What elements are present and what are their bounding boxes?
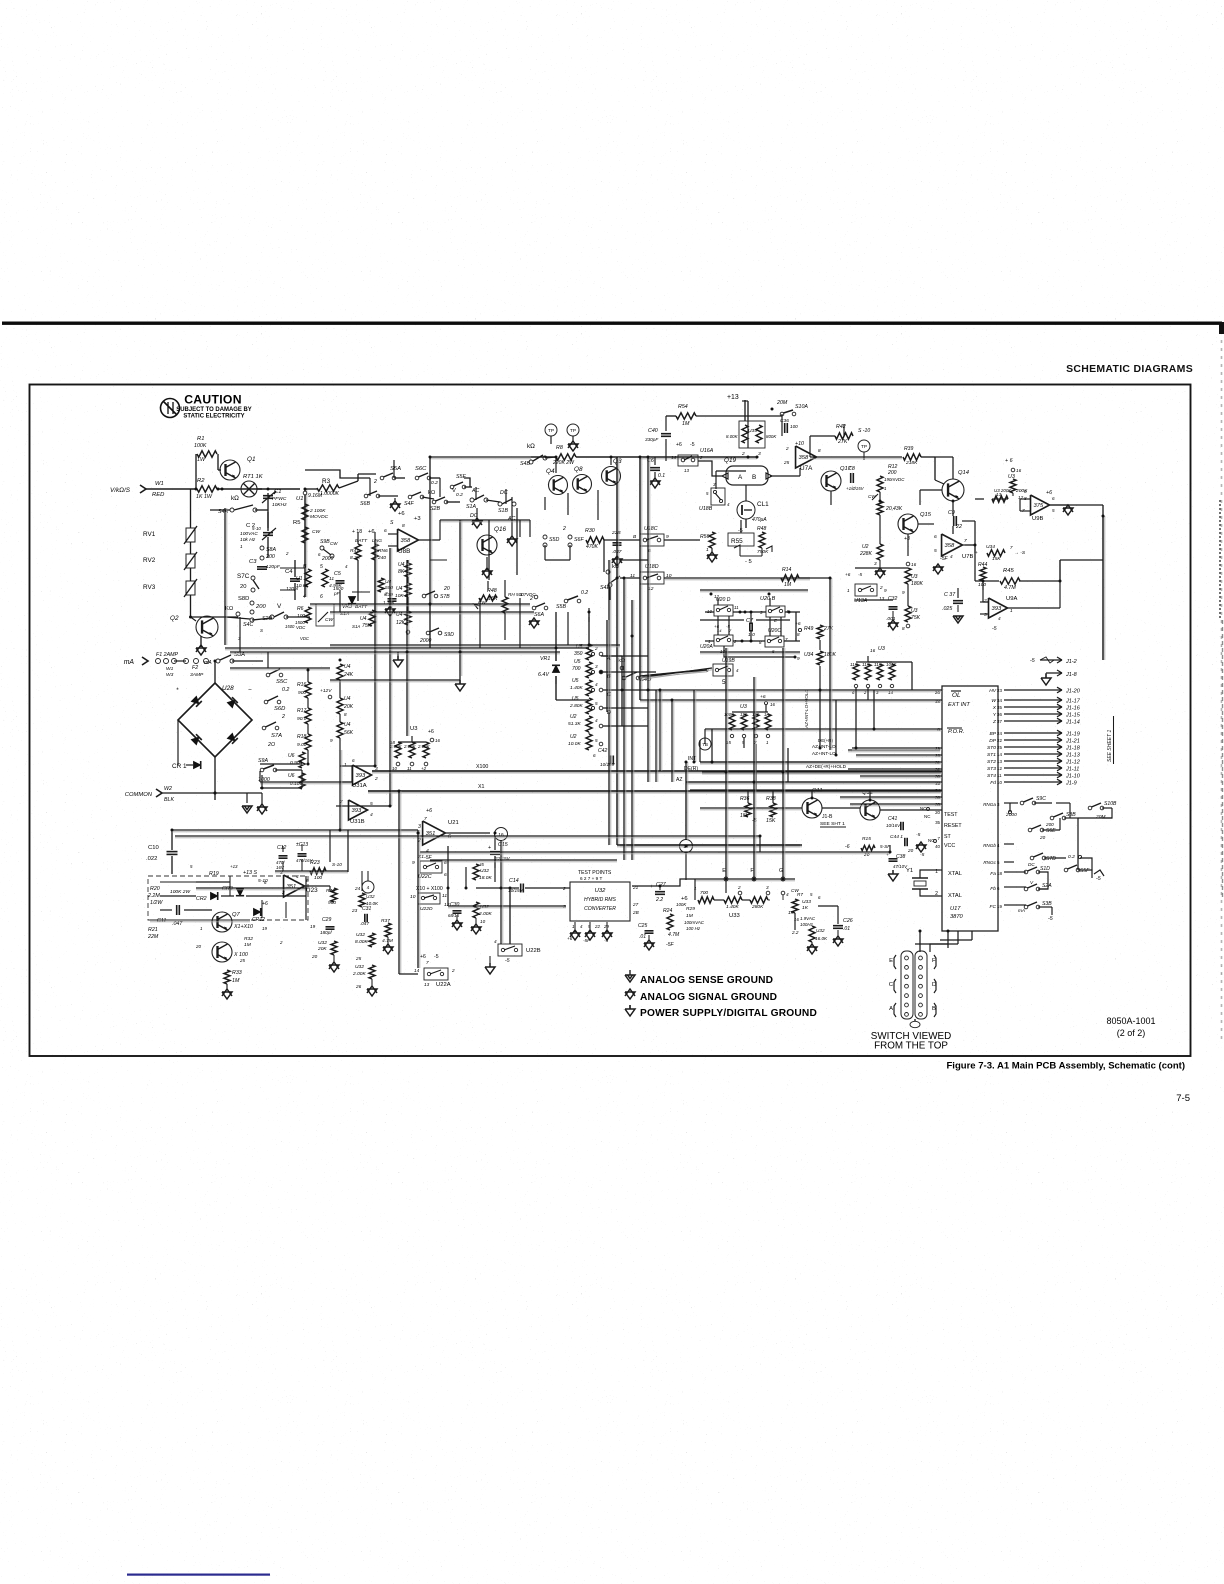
svg-text:U16A: U16A bbox=[700, 448, 714, 454]
resistor R17 90.0 bbox=[305, 708, 311, 724]
svg-text:S10A: S10A bbox=[795, 404, 808, 410]
wire R55 R48 to -5 bbox=[739, 546, 741, 556]
svg-text:1: 1 bbox=[200, 926, 203, 931]
grounds below bridge bbox=[246, 793, 248, 803]
switch S6E 200 bbox=[1028, 828, 1032, 832]
schematic frame bbox=[30, 385, 1191, 1057]
svg-text:Q19: Q19 bbox=[724, 457, 736, 464]
svg-text:Figure 7-3. A1 Main PCB Assemb: Figure 7-3. A1 Main PCB Assembly, Schema… bbox=[946, 1061, 1185, 1072]
bridge rectifier U28 bbox=[178, 683, 252, 757]
svg-text:J1-8: J1-8 bbox=[1065, 672, 1078, 678]
wire S4B line y457 bbox=[430, 456, 531, 458]
svg-text:X1: X1 bbox=[478, 784, 485, 790]
svg-text:27K: 27K bbox=[837, 439, 848, 445]
wire u5 top x589 bbox=[588, 608, 590, 612]
svg-text:1.0000K: 1.0000K bbox=[320, 491, 340, 497]
svg-text:J1-10: J1-10 bbox=[1065, 774, 1081, 780]
legend power ground symbol bbox=[625, 1009, 635, 1016]
wire vertical main loop x617 bbox=[616, 457, 618, 845]
svg-text:U32: U32 bbox=[355, 964, 364, 970]
switch S9D 2000 bbox=[426, 631, 430, 635]
wire IC bottom drops bbox=[919, 931, 921, 952]
svg-text:R14: R14 bbox=[782, 567, 791, 573]
svg-text:0.1: 0.1 bbox=[658, 473, 665, 479]
svg-text:228K: 228K bbox=[859, 551, 872, 557]
switch S1D DC bbox=[1024, 870, 1028, 874]
svg-text:10.0K: 10.0K bbox=[568, 741, 581, 747]
svg-text:-5: -5 bbox=[858, 572, 863, 577]
resistor U4 590 bbox=[378, 578, 384, 592]
svg-text:U4: U4 bbox=[360, 616, 367, 622]
svg-text:X: X bbox=[992, 705, 997, 711]
svg-text:Q8: Q8 bbox=[574, 466, 583, 473]
svg-text:RNGa: RNGa bbox=[983, 802, 996, 807]
svg-text:C31: C31 bbox=[362, 906, 371, 912]
svg-text:BLK: BLK bbox=[164, 797, 174, 803]
svg-text:J1-13: J1-13 bbox=[1065, 753, 1081, 759]
svg-text:S5D: S5D bbox=[549, 537, 559, 543]
wire U21 col x448 bbox=[447, 846, 449, 906]
svg-text:E: E bbox=[889, 958, 893, 964]
svg-text:U2: U2 bbox=[862, 544, 869, 550]
capacitor C1 (variable) bbox=[263, 495, 273, 497]
svg-text:9: 9 bbox=[412, 860, 415, 866]
svg-text:DC: DC bbox=[500, 490, 508, 496]
wire bundle vertical x624 bbox=[623, 578, 625, 860]
wire IC bus drop x694 bbox=[693, 690, 695, 762]
svg-text:+6: +6 bbox=[262, 901, 268, 907]
svg-text:W1: W1 bbox=[155, 481, 164, 487]
svg-text:0.2: 0.2 bbox=[456, 492, 463, 498]
svg-text:+: + bbox=[488, 845, 491, 851]
ground Q2 bbox=[200, 636, 202, 647]
svg-text:2: 2 bbox=[562, 886, 566, 891]
svg-text:4: 4 bbox=[580, 924, 583, 929]
wire R44 bottom bbox=[982, 581, 984, 602]
svg-text:18: 18 bbox=[390, 740, 395, 745]
svg-text:U3: U3 bbox=[878, 646, 885, 652]
svg-text:R49: R49 bbox=[804, 626, 813, 632]
svg-text:U32: U32 bbox=[356, 932, 365, 938]
resistor R16 900 bbox=[305, 682, 311, 698]
svg-text:3: 3 bbox=[876, 690, 879, 695]
svg-text:7: 7 bbox=[938, 836, 941, 841]
capacitor C9 22 bbox=[953, 516, 955, 526]
svg-text:U4: U4 bbox=[396, 612, 403, 618]
wire IC bus drop x712 bbox=[711, 729, 713, 762]
svg-text:51.3K: 51.3K bbox=[568, 721, 581, 727]
svg-text:-5F: -5F bbox=[940, 556, 949, 562]
wire rails y645 bbox=[330, 644, 620, 646]
long loop bottom bbox=[965, 544, 975, 546]
svg-text:P.O.R.: P.O.R. bbox=[948, 729, 964, 735]
svg-text:6: 6 bbox=[444, 872, 447, 878]
svg-text:W: W bbox=[991, 698, 996, 704]
resistor U33 280K bbox=[766, 891, 770, 895]
svg-text:-5F: -5F bbox=[666, 942, 675, 948]
svg-text:26: 26 bbox=[355, 984, 362, 989]
svg-text:1M: 1M bbox=[232, 978, 240, 984]
svg-text:C27: C27 bbox=[656, 882, 667, 888]
svg-text:+6: +6 bbox=[428, 729, 434, 735]
svg-text:U3: U3 bbox=[911, 574, 918, 580]
svg-text:mA: mA bbox=[204, 660, 212, 666]
transistor Q1 bbox=[220, 460, 240, 480]
wire circled4 links bbox=[367, 871, 369, 881]
wire rail y860 bbox=[430, 859, 617, 861]
wire Q11 row bbox=[620, 844, 800, 846]
svg-text:VDC: VDC bbox=[300, 636, 310, 641]
svg-text:1.40K: 1.40K bbox=[726, 904, 739, 910]
svg-text:22: 22 bbox=[594, 924, 600, 929]
svg-text:V: V bbox=[1030, 880, 1034, 885]
transistor Q16 bbox=[477, 535, 497, 555]
svg-text:AZ+DE(+R)+HOLD: AZ+DE(+R)+HOLD bbox=[806, 764, 847, 769]
svg-text:CR3: CR3 bbox=[222, 886, 233, 892]
svg-text:10: 10 bbox=[392, 766, 397, 771]
svg-text:24K: 24K bbox=[343, 672, 354, 678]
svg-text:U9A: U9A bbox=[1006, 596, 1017, 602]
svg-text:U9B: U9B bbox=[1032, 516, 1043, 522]
svg-text:5: 5 bbox=[934, 548, 937, 554]
svg-text:+10: +10 bbox=[795, 441, 804, 447]
svg-text:C25: C25 bbox=[638, 923, 647, 929]
svg-text:27: 27 bbox=[632, 902, 639, 907]
svg-text:20: 20 bbox=[907, 848, 914, 853]
wire S4D to U19B bbox=[640, 670, 707, 676]
svg-text:SUBJECT TO DAMAGE BY: SUBJECT TO DAMAGE BY bbox=[176, 407, 251, 413]
svg-text:13: 13 bbox=[684, 468, 689, 473]
svg-text:S6F: S6F bbox=[574, 537, 584, 543]
wire x656 col bbox=[655, 690, 657, 782]
svg-text:8: 8 bbox=[818, 448, 821, 453]
legend analog sense ground symbol bbox=[625, 975, 635, 982]
wire vertical x501 circled16 down bbox=[500, 840, 502, 944]
svg-text:Q1: Q1 bbox=[247, 456, 255, 463]
svg-text:1M: 1M bbox=[682, 421, 690, 427]
svg-text:4: 4 bbox=[998, 616, 1001, 621]
wire U20 row links bbox=[795, 612, 797, 641]
ground S6B bbox=[390, 501, 400, 508]
svg-text:-5: -5 bbox=[916, 832, 921, 838]
wire sub box bottom y648 bbox=[225, 647, 556, 649]
wires transistor trio bbox=[555, 457, 557, 473]
svg-text:C38: C38 bbox=[896, 854, 905, 860]
switch S5D bbox=[543, 535, 547, 539]
svg-text:4: 4 bbox=[370, 812, 373, 818]
U32 bottom grounds bbox=[574, 922, 576, 932]
svg-text:KΩ: KΩ bbox=[225, 606, 234, 612]
svg-text:R20: R20 bbox=[150, 886, 160, 892]
svg-text:C40: C40 bbox=[648, 428, 658, 434]
svg-text:C14: C14 bbox=[509, 878, 519, 884]
transistor Q14 bbox=[942, 479, 964, 501]
resistor R1 100K 1W bbox=[195, 454, 197, 489]
svg-text:AZ+INT-LO+HOLD: AZ+INT-LO+HOLD bbox=[804, 689, 809, 729]
svg-text:+3: +3 bbox=[414, 516, 421, 522]
switch U18D bbox=[640, 572, 664, 584]
switch U19B bbox=[713, 664, 733, 676]
switch S7D bbox=[1030, 856, 1034, 860]
svg-text:2: 2 bbox=[737, 885, 741, 890]
svg-text:4: 4 bbox=[595, 682, 598, 687]
svg-text:HV: HV bbox=[989, 688, 997, 694]
svg-text:10: 10 bbox=[480, 919, 486, 924]
wire vertical x399 X1 to U22A bbox=[398, 791, 400, 974]
wire R49 col verticals bbox=[819, 640, 821, 650]
wires U33 rail to resistors bbox=[694, 879, 696, 900]
switch S8B bbox=[1050, 816, 1054, 820]
svg-text:U7B: U7B bbox=[962, 554, 973, 560]
svg-text:1K: 1K bbox=[788, 910, 795, 915]
wire x330 drop bbox=[329, 830, 331, 862]
svg-text:+2: +2 bbox=[421, 766, 427, 771]
svg-text:6: 6 bbox=[448, 834, 451, 840]
svg-text:100K 2W: 100K 2W bbox=[170, 889, 190, 895]
svg-text:C32: C32 bbox=[888, 596, 897, 602]
svg-text:200: 200 bbox=[887, 470, 897, 476]
svg-text:+13: +13 bbox=[230, 864, 238, 869]
svg-text:NC: NC bbox=[924, 814, 931, 819]
svg-text:20M: 20M bbox=[776, 400, 788, 406]
svg-text:+ 6: + 6 bbox=[1005, 458, 1013, 464]
svg-text:5: 5 bbox=[810, 892, 813, 897]
svg-text:358: 358 bbox=[799, 455, 809, 461]
svg-text:10KHz: 10KHz bbox=[272, 502, 287, 508]
svg-text:375: 375 bbox=[1034, 503, 1044, 509]
svg-text:S2A: S2A bbox=[1042, 883, 1052, 889]
svg-text:R24: R24 bbox=[663, 908, 672, 914]
potentiometer CW arrow bbox=[318, 612, 328, 622]
wire bundle vertical x648 bbox=[647, 457, 649, 700]
bus X100 bbox=[372, 770, 940, 772]
svg-text:16: 16 bbox=[1016, 468, 1022, 473]
op amp U8B feed wires bbox=[388, 533, 397, 535]
bottom connector switch columns bbox=[901, 951, 913, 1019]
svg-text:6: 6 bbox=[934, 534, 937, 540]
svg-text:19: 19 bbox=[310, 924, 316, 929]
wire U23 out bbox=[305, 885, 330, 887]
svg-text:20: 20 bbox=[195, 944, 201, 949]
wire y656 taps to S4D bbox=[622, 667, 624, 669]
resistor R6 100 bbox=[305, 607, 311, 623]
svg-text:CW: CW bbox=[330, 541, 338, 546]
svg-text:11: 11 bbox=[442, 893, 447, 899]
svg-text:S1D: S1D bbox=[1040, 866, 1050, 872]
svg-text:180pf: 180pf bbox=[320, 930, 332, 935]
wire IC bus drop x672 bbox=[671, 700, 673, 782]
ground under C29 bbox=[329, 962, 339, 969]
svg-text:20: 20 bbox=[935, 810, 940, 815]
svg-text:U20A: U20A bbox=[700, 644, 713, 650]
svg-text:16V: 16V bbox=[276, 865, 285, 870]
svg-text:6: 6 bbox=[852, 690, 855, 695]
wire U31A minus input bbox=[260, 781, 352, 783]
svg-text:8: 8 bbox=[344, 712, 347, 717]
svg-text:12: 12 bbox=[648, 586, 654, 592]
svg-text:J1-16: J1-16 bbox=[1065, 706, 1081, 712]
svg-text:4: 4 bbox=[296, 874, 299, 879]
svg-text:R44: R44 bbox=[978, 562, 987, 568]
wire x240 S4C link bbox=[239, 617, 241, 652]
svg-text:U32: U32 bbox=[595, 888, 606, 894]
svg-text:2: 2 bbox=[699, 455, 703, 460]
svg-text:C44 1: C44 1 bbox=[890, 834, 903, 840]
svg-text:3: 3 bbox=[595, 664, 598, 669]
svg-text:C11: C11 bbox=[157, 918, 166, 924]
svg-text:kΩ: kΩ bbox=[527, 443, 535, 450]
wire y520 Q16 row bbox=[440, 519, 530, 521]
svg-text:C5: C5 bbox=[334, 571, 341, 577]
transistor Q7 bbox=[212, 912, 232, 932]
svg-text:2B: 2B bbox=[632, 910, 639, 915]
op amp U31A bbox=[353, 765, 372, 785]
svg-text:R40: R40 bbox=[326, 888, 335, 894]
svg-text:393: 393 bbox=[352, 808, 362, 814]
svg-text:20: 20 bbox=[863, 852, 870, 858]
svg-text:U5: U5 bbox=[574, 659, 581, 665]
svg-text:-5: -5 bbox=[1030, 658, 1035, 664]
wire R55 col x741 bbox=[740, 520, 742, 533]
ground under R33 bbox=[226, 984, 228, 990]
svg-text:−: − bbox=[248, 687, 252, 694]
svg-text:DP: DP bbox=[989, 738, 997, 744]
wire Q19 out to Q17 bbox=[770, 475, 800, 477]
wire x700 drop bbox=[699, 740, 701, 762]
IC U17 3870 bbox=[942, 686, 998, 931]
wire vertical x783 to G bbox=[782, 648, 784, 877]
svg-text:16.0K: 16.0K bbox=[815, 936, 828, 941]
svg-text:U32: U32 bbox=[366, 894, 375, 899]
svg-text:U32: U32 bbox=[480, 904, 489, 910]
svg-text:3: 3 bbox=[418, 824, 421, 830]
svg-text:7: 7 bbox=[1010, 545, 1013, 550]
switch S6A bbox=[532, 606, 536, 610]
switch S5E bbox=[450, 485, 454, 489]
wire x648 extend bbox=[647, 700, 649, 782]
svg-text:100VAC: 100VAC bbox=[240, 531, 258, 537]
svg-text:10/16V: 10/16V bbox=[886, 823, 901, 828]
svg-text:5: 5 bbox=[1052, 508, 1055, 513]
svg-text:STATIC ELECTRICITY: STATIC ELECTRICITY bbox=[183, 414, 244, 420]
wire x480 pot drop bbox=[479, 598, 481, 648]
svg-text:4: 4 bbox=[426, 848, 429, 854]
svg-text:1K: 1K bbox=[802, 905, 809, 911]
svg-text:S7A: S7A bbox=[271, 733, 282, 739]
wire vertical x390 to U31B bbox=[389, 548, 391, 806]
svg-text:RN6: RN6 bbox=[378, 548, 388, 554]
svg-text:+6: +6 bbox=[760, 694, 766, 700]
wires U31 inputs bbox=[340, 765, 352, 767]
wire y606 r30 link bbox=[603, 540, 605, 572]
switch S6F bbox=[568, 535, 572, 539]
svg-text:800K: 800K bbox=[766, 434, 777, 439]
wire rail y836 bbox=[175, 835, 760, 837]
wire vertical x726 to E bbox=[725, 648, 727, 877]
diode CR1 bbox=[194, 761, 201, 768]
wire x517 col bbox=[516, 508, 518, 575]
svg-text:mA: mA bbox=[1018, 908, 1025, 913]
wires range switch rows bbox=[394, 477, 405, 479]
resistor R33 1M bbox=[224, 970, 230, 984]
transistor Q8 x100 bbox=[212, 942, 232, 962]
wire U20 verticals bbox=[717, 616, 719, 635]
extra wires be bbox=[352, 591, 370, 593]
svg-text:20K: 20K bbox=[343, 704, 354, 710]
svg-text:S1A: S1A bbox=[466, 504, 476, 510]
svg-text:6: 6 bbox=[593, 753, 596, 758]
svg-text:AC: AC bbox=[471, 488, 480, 494]
svg-text:-5: -5 bbox=[992, 626, 997, 632]
wire U32 out to U33 bbox=[660, 879, 695, 886]
svg-text:1/2W: 1/2W bbox=[150, 900, 163, 906]
wire C5 col drop bbox=[339, 590, 341, 612]
svg-text:-5: -5 bbox=[434, 954, 439, 960]
svg-text:2: 2 bbox=[281, 714, 285, 720]
svg-text:22: 22 bbox=[955, 524, 962, 530]
svg-text:R3: R3 bbox=[322, 478, 331, 485]
svg-text:+ 18: + 18 bbox=[352, 529, 362, 535]
svg-text:4: 4 bbox=[786, 892, 789, 897]
wire vertical x754 to F bbox=[753, 677, 755, 877]
svg-text:9: 9 bbox=[884, 588, 887, 593]
svg-text:W2: W2 bbox=[164, 786, 172, 792]
capacitor C6 0.1 bbox=[654, 457, 656, 465]
svg-text:R48: R48 bbox=[757, 526, 766, 532]
svg-text:11: 11 bbox=[734, 605, 739, 610]
wire x520 drop bbox=[519, 520, 521, 537]
wires bridge bbox=[214, 661, 216, 683]
svg-text:.01: .01 bbox=[639, 934, 646, 940]
svg-text:350: 350 bbox=[574, 651, 583, 657]
svg-text:R54: R54 bbox=[678, 404, 688, 410]
svg-text:R7: R7 bbox=[797, 892, 803, 897]
transistor Q15 bbox=[898, 514, 918, 534]
op amp U9B bbox=[1031, 495, 1050, 515]
wire x686 TP17 bbox=[685, 772, 687, 840]
svg-text:.047: .047 bbox=[360, 921, 369, 926]
svg-text:0.2: 0.2 bbox=[581, 590, 588, 596]
svg-text:23: 23 bbox=[997, 688, 1002, 693]
svg-text:U22B: U22B bbox=[526, 948, 541, 954]
svg-text:RNGc: RNGc bbox=[983, 860, 996, 865]
svg-text:100: 100 bbox=[297, 613, 305, 619]
ladder tap bracket bbox=[606, 620, 608, 712]
svg-text:U32: U32 bbox=[816, 928, 825, 933]
svg-text:U8B: U8B bbox=[398, 548, 410, 555]
svg-text:240: 240 bbox=[377, 555, 386, 561]
svg-text:kΩ: kΩ bbox=[428, 490, 436, 496]
svg-text:5: 5 bbox=[320, 564, 323, 570]
svg-text:V: V bbox=[452, 488, 456, 494]
svg-text:U22A: U22A bbox=[436, 982, 451, 988]
svg-text:13: 13 bbox=[424, 982, 430, 987]
svg-text:7: 7 bbox=[426, 960, 429, 965]
test point TP9 bbox=[858, 440, 870, 452]
svg-text:56K: 56K bbox=[344, 730, 354, 736]
svg-text:14: 14 bbox=[888, 690, 893, 695]
svg-text:ST3: ST3 bbox=[987, 766, 996, 772]
switch S5A bbox=[380, 476, 384, 480]
svg-text:0.2: 0.2 bbox=[1068, 854, 1075, 860]
svg-text:ST2: ST2 bbox=[987, 759, 996, 765]
svg-text:S10B: S10B bbox=[1104, 801, 1117, 807]
wire U20A pin13 down bbox=[724, 646, 795, 657]
svg-text:23: 23 bbox=[351, 908, 358, 913]
wire x556 mid ext bbox=[555, 676, 557, 700]
arrow J1-8 bbox=[1046, 672, 1062, 674]
switch U22C bbox=[420, 861, 442, 873]
